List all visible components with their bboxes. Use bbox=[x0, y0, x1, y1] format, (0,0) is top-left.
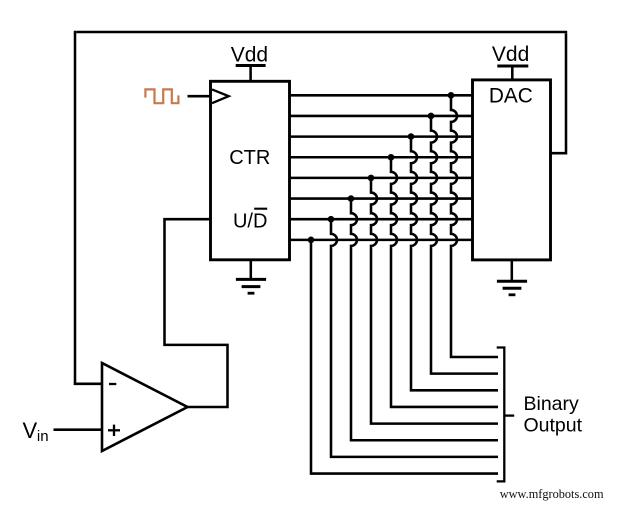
wire: counter output bit 7 to DAC (Q7) bbox=[289, 94, 474, 97]
wire: comparator output to U/D input bbox=[165, 219, 228, 407]
Vdd label (DAC) bbox=[492, 43, 529, 66]
svg-text:U/D: U/D bbox=[233, 210, 267, 232]
watermark www.mfgrobots.com bbox=[500, 487, 604, 501]
wire: bit 2 tap down to binary output bbox=[351, 200, 498, 441]
wire: feedback into op-amp inverting input bbox=[74, 383, 103, 386]
wire: bit 4 tap down to binary output bbox=[391, 158, 498, 407]
svg-text:in: in bbox=[37, 428, 49, 445]
wire: counter ground stub bbox=[250, 260, 253, 280]
Vdd rail bar (DAC) bbox=[497, 65, 528, 68]
svg-text:Binary: Binary bbox=[524, 393, 580, 415]
wire: bit 0 tap down to binary output bbox=[311, 241, 498, 474]
junction node bit 3 bbox=[368, 175, 375, 182]
wire: DAC ground stub bbox=[511, 260, 514, 281]
wire: feedback top horizontal bbox=[76, 31, 567, 34]
wire: bit 6 tap down to binary output bbox=[431, 117, 498, 374]
junction node bit 7 bbox=[448, 92, 455, 99]
junction node bit 4 bbox=[388, 154, 395, 161]
wire: Vin to non-inverting input bbox=[54, 428, 104, 431]
counter U1 box (CTR) bbox=[211, 81, 290, 259]
junction node bit 0 bbox=[308, 237, 315, 244]
clock edge-trigger symbol on U1 bbox=[212, 89, 229, 103]
label Binary Output bbox=[524, 393, 583, 437]
wire: Vdd stub to DAC bbox=[511, 66, 514, 80]
label U/D (down-bar) on U1 bbox=[233, 209, 267, 233]
svg-text:CTR: CTR bbox=[229, 147, 270, 169]
ground symbol (DAC) bbox=[497, 281, 527, 295]
binary output bracket bbox=[497, 348, 505, 482]
svg-text:Vdd: Vdd bbox=[492, 43, 529, 66]
junction node bit 5 bbox=[408, 133, 415, 140]
DAC U3 box bbox=[473, 80, 551, 260]
Vdd rail bar (counter) bbox=[236, 64, 266, 67]
wire: counter output bit 1 to DAC (Q1) bbox=[289, 218, 474, 221]
Vdd label (counter) bbox=[231, 44, 268, 67]
wire: bit 3 tap down to binary output bbox=[371, 179, 498, 424]
junction node bit 1 bbox=[328, 216, 335, 223]
svg-text:Vdd: Vdd bbox=[231, 44, 268, 67]
svg-text:Output: Output bbox=[524, 415, 583, 437]
wire: counter output bit 6 to DAC (Q6) bbox=[289, 115, 474, 118]
wire: clock input bbox=[188, 95, 211, 98]
clock square-wave symbol bbox=[145, 89, 178, 103]
ground symbol (counter) bbox=[236, 279, 266, 293]
wire: feedback left vertical bbox=[74, 31, 77, 385]
wire: bracket to label bbox=[504, 414, 514, 416]
label CTR on U1 bbox=[229, 147, 270, 169]
wire: counter output bit 4 to DAC (Q4) bbox=[289, 156, 474, 159]
svg-text:www.mfgrobots.com: www.mfgrobots.com bbox=[500, 487, 604, 501]
wire: counter output bit 5 to DAC (Q5) bbox=[289, 135, 474, 138]
wire: counter output bit 2 to DAC (Q2) bbox=[289, 197, 474, 200]
junction node bit 6 bbox=[428, 113, 435, 120]
wire: bit 5 tap down to binary output bbox=[411, 138, 498, 391]
svg-text:DAC: DAC bbox=[489, 85, 533, 108]
plus sign at U2 non-inverting input bbox=[108, 425, 120, 436]
label Vin bbox=[23, 418, 49, 445]
wire: bit 7 tap down to binary output bbox=[451, 96, 498, 357]
label DAC on U3 bbox=[489, 85, 533, 108]
wire: Vdd stub to counter bbox=[249, 66, 252, 82]
op-amp comparator U2 bbox=[102, 363, 188, 451]
wire: bit 1 tap down to binary output bbox=[331, 220, 498, 457]
wire: DAC output feedback, right segment bbox=[550, 33, 567, 153]
junction node bit 2 bbox=[348, 195, 355, 202]
svg-text:V: V bbox=[23, 418, 38, 443]
minus sign at U2 inverting input bbox=[109, 383, 116, 385]
wire: counter output bit 3 to DAC (Q3) bbox=[289, 177, 474, 180]
wire: counter output bit 0 to DAC (Q0) bbox=[289, 239, 474, 242]
